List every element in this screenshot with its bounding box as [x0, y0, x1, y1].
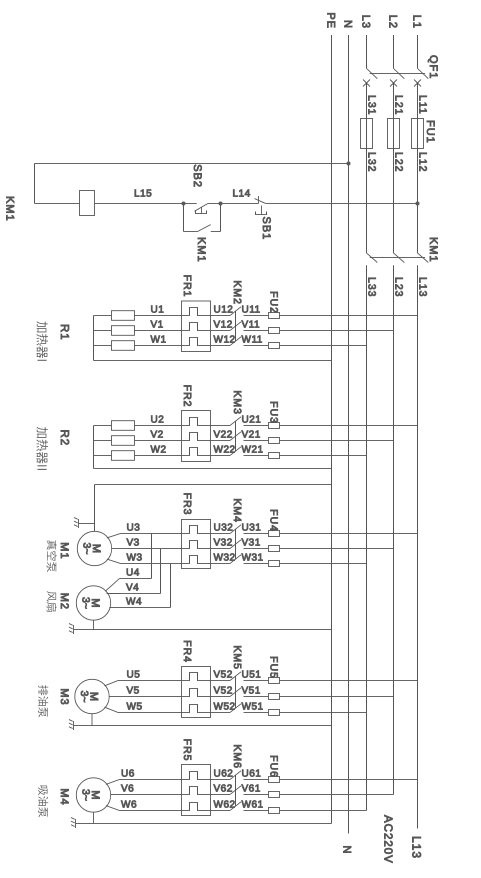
wire: M2 earth riser to PE [74, 629, 332, 631]
wire: fuse to contact 3 [244, 712, 269, 714]
wire U4: jog from M1 wire to M2 wire [151, 534, 153, 579]
wire: heater element 2 to common bar [94, 440, 112, 442]
wire L14: SB1 to node below [221, 203, 259, 205]
svg-text:3~: 3~ [81, 543, 93, 555]
svg-text:V2: V2 [151, 430, 164, 441]
thermal relay FR5 box [182, 765, 211, 816]
wire: contact 2 down to thermal relay [211, 696, 231, 698]
contactor KM3 contact 3 blade [230, 447, 241, 456]
svg-text:L32: L32 [366, 152, 378, 173]
bus wire L13 after KM1 [417, 265, 419, 828]
svg-text:U62: U62 [214, 769, 234, 780]
wire: phase 3 tap from bus down to fuse [280, 712, 367, 714]
wire: M4 frame stub [93, 812, 95, 823]
wire V2: thermal relay to heater [135, 440, 182, 442]
wire: fuse to contact 1 [244, 680, 269, 682]
wire: riser up to N bus [35, 163, 349, 165]
svg-text:U4: U4 [126, 568, 140, 579]
wire: fuse to contact 1 [244, 533, 269, 535]
fuse FU5 element 3 [269, 710, 280, 716]
wire W5: thermal relay down to motor M3 [118, 712, 182, 714]
svg-text:V52: V52 [214, 670, 233, 681]
fuse FU3 element 1 [269, 423, 280, 429]
wire: contact 3 down to thermal relay [211, 455, 231, 457]
fuse FU2 element 1 [269, 313, 280, 319]
svg-text:L13: L13 [417, 277, 429, 298]
contactor KM2 contact 2 blade [230, 322, 241, 331]
wire: M4 earth riser to PE [76, 823, 332, 825]
wire: phase 1 tap from bus down to fuse [280, 425, 418, 427]
wire: control rung from L1 down to SB1 [266, 203, 418, 205]
wire U1: thermal relay to heater [135, 315, 182, 317]
wire: fuse to contact 1 [244, 779, 269, 781]
wire: fuse to contact 2 [244, 440, 269, 442]
wire: contact 1 down to thermal relay [211, 779, 231, 781]
thermal relay FR4 element 2 [182, 689, 211, 697]
breaker QF1 pole L1 x-mark [414, 80, 421, 87]
neutral bus wire N [348, 35, 350, 834]
label oil-discharge pump (Chinese) [38, 685, 48, 695]
thermal relay FR1 box [182, 301, 211, 352]
svg-text:V31: V31 [242, 538, 261, 549]
svg-text:V5: V5 [127, 686, 140, 697]
wire: heater element 2 to common bar [94, 330, 112, 332]
contactor KM1 linkage [370, 257, 425, 259]
svg-text:L11: L11 [417, 95, 429, 115]
wire: M4 W lead diagonal [106, 806, 120, 811]
wire: M1 ground drop [79, 523, 95, 525]
svg-text:L2: L2 [387, 15, 399, 29]
svg-text:KM5: KM5 [231, 645, 243, 670]
svg-text:V6: V6 [121, 784, 134, 795]
svg-text:L23: L23 [393, 277, 405, 298]
svg-text:KM1: KM1 [427, 237, 439, 263]
wire: phase 1 tap from bus down to fuse [280, 533, 418, 535]
svg-text:W61: W61 [242, 800, 264, 811]
resistor R1 element 1 [112, 311, 135, 321]
wire W4: jog from M1 wire to M2 wire [170, 564, 172, 608]
node: control tap on L1 [416, 202, 420, 206]
fuse FU6 element 2 [269, 792, 280, 798]
svg-text:SB2: SB2 [191, 164, 203, 188]
wire: M3 frame stub [91, 714, 93, 726]
wire: fuse to contact 2 [244, 696, 269, 698]
thermal relay FR2 element 1 [182, 418, 211, 426]
fuse FU1 element L3 [361, 119, 373, 149]
breaker QF1 pole L3 blade [367, 68, 378, 78]
node: SB2/KM1-aux upper junction [219, 202, 223, 206]
thermal relay FR5 element 2 [182, 787, 211, 795]
svg-text:L3: L3 [360, 15, 372, 29]
svg-text:M3: M3 [58, 688, 70, 705]
breaker QF1 pole L2 blade [394, 68, 405, 78]
wire: R1 earth riser to PE [94, 360, 332, 362]
contactor KM2 linkage [235, 311, 237, 341]
wire V3: thermal relay down to motor M1 [112, 548, 182, 550]
breaker QF1 linkage [370, 73, 425, 75]
wire: M2 frame stub [93, 620, 95, 629]
svg-text:KM1: KM1 [195, 237, 207, 263]
contactor KM2 contact 3 blade [230, 337, 241, 346]
contactor KM4 contact 1 blade [230, 525, 241, 534]
motor M1 circle [77, 531, 111, 565]
label fan (Chinese) [47, 591, 57, 601]
svg-text:FR1: FR1 [181, 275, 193, 298]
svg-text:V3: V3 [127, 538, 140, 549]
wire: bottom run to N riser [34, 164, 36, 204]
svg-text:V21: V21 [242, 430, 261, 441]
contactor KM4 contact 2 blade [230, 540, 241, 549]
ground symbol at M3 [73, 721, 75, 730]
svg-text:V12: V12 [214, 320, 233, 331]
wire: fuse to contact 3 [244, 455, 269, 457]
svg-text:W3: W3 [127, 553, 143, 564]
svg-text:3~: 3~ [80, 789, 92, 801]
wire W3: thermal relay down to motor M1 [121, 563, 182, 565]
wire V4: jog from M1 wire to M2 wire [160, 549, 162, 594]
wire: phase 1 tap from bus down to fuse [280, 315, 418, 317]
pushbutton SB1 (NC) blade [255, 199, 266, 204]
thermal relay FR3 element 1 [182, 526, 211, 534]
svg-text:N: N [342, 20, 354, 29]
svg-text:L14: L14 [233, 189, 251, 200]
svg-text:U1: U1 [151, 305, 165, 316]
wire: phase 3 tap from bus down to fuse [280, 345, 367, 347]
wire: M3 U lead diagonal [104, 681, 118, 686]
wire: M4 U lead diagonal [106, 780, 120, 785]
fuse FU2 element 3 [269, 343, 280, 349]
thermal relay FR2 element 2 [182, 433, 211, 441]
fuse FU5 element 1 [269, 678, 280, 684]
thermal relay FR3 element 2 [182, 541, 211, 549]
pushbutton SB2 actuator stem [201, 207, 203, 214]
fuse FU1 element L2 [388, 119, 400, 149]
svg-text:W5: W5 [127, 702, 143, 713]
svg-text:M2: M2 [58, 593, 70, 610]
wire V1: thermal relay to heater [135, 330, 182, 332]
resistor R2 element 1 [112, 421, 135, 431]
wire: heater element 3 to common bar [94, 345, 112, 347]
contactor KM1 main contact L1 blade [418, 253, 429, 263]
bus wire L23 after KM1 [393, 265, 395, 794]
svg-text:V4: V4 [126, 583, 139, 594]
svg-text:U5: U5 [127, 670, 141, 681]
wire: contact 2 down to thermal relay [211, 794, 231, 796]
contactor KM1 main contact L2 blade [394, 253, 405, 263]
wire: phase 3 tap from bus down to fuse [280, 563, 367, 565]
svg-text:FR4: FR4 [181, 640, 193, 663]
svg-text:QF1: QF1 [427, 55, 439, 79]
resistor R1 element 3 [112, 341, 135, 351]
svg-text:W6: W6 [121, 800, 137, 811]
contactor KM5 contact 2 blade [230, 688, 241, 697]
svg-text:W11: W11 [242, 335, 263, 346]
pushbutton SB1 actuator stem [261, 206, 263, 215]
svg-text:N: N [341, 846, 353, 855]
svg-text:V61: V61 [242, 784, 261, 795]
wire: M2 V lead entry [107, 593, 120, 595]
thermal relay FR5 element 1 [182, 772, 211, 780]
svg-text:M1: M1 [58, 542, 70, 559]
pushbutton SB2 actuator cap [196, 211, 207, 214]
pushbutton SB2 (NO) blade [195, 204, 208, 212]
svg-text:FU3: FU3 [268, 401, 280, 424]
svg-text:L13: L13 [410, 836, 424, 859]
wire: contact 3 down to thermal relay [211, 810, 231, 812]
svg-text:R2: R2 [58, 430, 70, 447]
wire: contact 2 down to thermal relay [211, 330, 231, 332]
wire: phase 1 tap from bus down to fuse [280, 680, 418, 682]
pushbutton SB1 seat tick [258, 196, 260, 204]
svg-text:W32: W32 [214, 553, 236, 564]
fuse FU4 element 3 [269, 561, 280, 567]
contactor KM1 main contact L3 blade [367, 253, 378, 263]
wire W4: down to motor M2 [120, 607, 171, 609]
svg-text:W12: W12 [214, 335, 236, 346]
contactor KM6 contact 1 blade [230, 771, 241, 780]
wire: M1 U lead diagonal [107, 534, 121, 538]
contactor KM6 linkage [235, 775, 237, 806]
svg-text:W31: W31 [242, 553, 264, 564]
svg-text:SB1: SB1 [260, 217, 272, 241]
wire U5: thermal relay down to motor M3 [118, 680, 182, 682]
thermal relay FR2 box [182, 411, 211, 462]
wire: R2 earth riser to PE [94, 468, 332, 470]
wire: M2 U lead diagonal [105, 579, 119, 592]
bus wire L33 after KM1 [366, 265, 368, 810]
svg-text:KM2: KM2 [231, 280, 243, 305]
wire: heater element 1 to common bar [94, 425, 112, 427]
contactor KM2 contact 1 blade [230, 307, 241, 316]
wire U6: thermal relay down to motor M4 [120, 779, 182, 781]
thermal relay FR4 box [182, 667, 211, 718]
wire: phase 1 tap from bus down to fuse [280, 779, 418, 781]
resistor R2 element 2 [112, 436, 135, 446]
svg-text:U11: U11 [242, 305, 261, 316]
bus wire L1 segment before QF1 [417, 35, 419, 68]
label heater I (Chinese) [37, 321, 48, 332]
wire: node to SB2 [208, 203, 221, 205]
wire: contact 1 down to thermal relay [211, 315, 231, 317]
svg-text:V1: V1 [151, 320, 164, 331]
fuse FU4 element 2 [269, 546, 280, 552]
svg-text:W22: W22 [214, 445, 236, 456]
thermal relay FR1 element 1 [182, 308, 211, 316]
wire L15: node down to coil [95, 203, 184, 205]
svg-text:U2: U2 [151, 415, 165, 426]
svg-text:U32: U32 [214, 523, 234, 534]
svg-text:3~: 3~ [78, 691, 90, 703]
wire: M1 W lead diagonal [107, 559, 121, 563]
svg-text:W62: W62 [214, 800, 236, 811]
thermal relay FR1 element 3 [182, 338, 211, 346]
svg-text:R1: R1 [58, 324, 70, 341]
wire: fuse to contact 3 [244, 563, 269, 565]
wire: contact 2 down to thermal relay [211, 548, 231, 550]
motor M4 circle [76, 778, 110, 812]
svg-text:V22: V22 [214, 430, 233, 441]
svg-text:FU6: FU6 [268, 755, 280, 778]
breaker QF1 pole L3 x-mark [363, 80, 370, 87]
breaker QF1 pole L2 x-mark [390, 80, 397, 87]
thermal relay FR3 element 3 [182, 556, 211, 564]
wire: contact 3 down to thermal relay [211, 345, 231, 347]
svg-text:W2: W2 [151, 445, 167, 456]
svg-text:M4: M4 [58, 788, 70, 805]
ground symbol at M2 [73, 625, 75, 634]
wire U3: thermal relay down to motor M1 [121, 533, 182, 535]
bus wire L1 segment L11-L12 through FU1 [417, 83, 419, 253]
thermal relay FR4 element 3 [182, 705, 211, 713]
fuse FU3 element 3 [269, 453, 280, 459]
wire: contact 2 down to thermal relay [211, 440, 231, 442]
svg-text:FR2: FR2 [181, 385, 193, 408]
motor M3 circle [75, 679, 109, 713]
wire: fuse to contact 1 [244, 425, 269, 427]
svg-text:W4: W4 [126, 597, 142, 608]
svg-text:U12: U12 [214, 305, 234, 316]
thermal relay FR4 element 1 [182, 673, 211, 681]
svg-text:3~: 3~ [80, 597, 92, 609]
wire: KM1 aux branch right lower [184, 231, 198, 233]
bus wire L2 segment before QF1 [393, 35, 395, 68]
svg-text:FU1: FU1 [424, 120, 436, 144]
wire: contact 3 down to thermal relay [211, 563, 231, 565]
wire: phase 2 tap from bus down to fuse [280, 440, 394, 442]
wire V4: down to motor M2 [107, 593, 161, 595]
contactor KM1 auxiliary contact blade [198, 225, 211, 232]
svg-text:W1: W1 [151, 335, 167, 346]
contactor KM6 contact 2 blade [230, 786, 241, 795]
wire: KM1 aux branch right upper [211, 231, 221, 233]
svg-text:KM1: KM1 [4, 196, 16, 222]
fuse FU4 element 1 [269, 531, 280, 537]
thermal relay FR1 element 2 [182, 323, 211, 331]
svg-text:V11: V11 [242, 320, 261, 331]
svg-text:KM4: KM4 [231, 498, 243, 523]
label vacuum pump (Chinese) [47, 540, 57, 550]
svg-text:U31: U31 [242, 523, 262, 534]
ground symbol at M1 [78, 519, 80, 528]
wire: fuse to contact 3 [244, 810, 269, 812]
svg-text:FR5: FR5 [181, 739, 193, 762]
svg-text:W51: W51 [242, 702, 264, 713]
wire: SB2 to lower node [184, 203, 197, 205]
breaker QF1 pole L1 blade [418, 68, 429, 78]
contactor KM3 linkage [235, 421, 237, 451]
wire: M3 W lead diagonal [104, 707, 118, 712]
svg-text:U6: U6 [121, 769, 135, 780]
wire: fuse to contact 2 [244, 794, 269, 796]
bus wire L3 segment L31-L32 through FU1 [366, 83, 368, 253]
svg-text:V51: V51 [242, 686, 261, 697]
svg-text:L31: L31 [366, 95, 378, 116]
svg-text:V52: V52 [214, 686, 233, 697]
wire: R1 common bar [93, 316, 95, 361]
fuse FU5 element 2 [269, 694, 280, 700]
svg-text:V62: V62 [214, 784, 233, 795]
label heater II (Chinese) [37, 427, 48, 438]
contactor KM6 contact 3 blade [230, 802, 241, 811]
earth bus wire PE [331, 35, 333, 824]
svg-text:L21: L21 [393, 95, 405, 116]
svg-text:U51: U51 [242, 670, 262, 681]
svg-text:PE: PE [325, 12, 337, 29]
svg-text:KM6: KM6 [231, 744, 243, 769]
wire: M2 W lead entry [109, 607, 119, 609]
wire W2: thermal relay to heater [135, 455, 182, 457]
svg-text:L33: L33 [366, 277, 378, 298]
pushbutton SB1 actuator cap [256, 212, 267, 215]
ground symbol at M4 [75, 819, 77, 828]
resistor R1 element 2 [112, 326, 135, 336]
thermal relay FR3 box [182, 520, 211, 569]
contactor KM4 linkage [235, 529, 237, 559]
label oil-suction pump (Chinese) [38, 786, 47, 796]
wire: fuse to contact 2 [244, 548, 269, 550]
svg-text:FU4: FU4 [268, 509, 280, 532]
bus wire L2 segment L21-L22 through FU1 [393, 83, 395, 253]
motor M2 circle [76, 586, 110, 620]
wire: heater element 3 to common bar [94, 455, 112, 457]
fuse FU1 element L1 [412, 119, 424, 149]
contactor KM4 contact 3 blade [230, 555, 241, 564]
contactor KM5 contact 3 blade [230, 704, 241, 713]
wire V6: thermal relay down to motor M4 [111, 794, 182, 796]
wire: fuse to contact 1 [244, 315, 269, 317]
wire: contact 3 down to thermal relay [211, 712, 231, 714]
wire: coil to bottom corner [35, 203, 80, 205]
contactor KM3 contact 1 blade [230, 417, 241, 426]
wire: phase 2 tap from bus down to fuse [280, 696, 394, 698]
wire U2: thermal relay to heater [135, 425, 182, 427]
wire: phase 2 tap from bus down to fuse [280, 794, 394, 796]
wire: KM1 aux branch top [220, 204, 222, 232]
wire W6: thermal relay down to motor M4 [120, 810, 182, 812]
wire: M1 frame wire to PE riser [94, 485, 96, 532]
thermal relay FR5 element 3 [182, 803, 211, 811]
fuse FU3 element 2 [269, 438, 280, 444]
resistor R2 element 3 [112, 451, 135, 461]
wire U4: down to motor M2 [120, 578, 152, 580]
wire: fuse to contact 3 [244, 345, 269, 347]
svg-text:L22: L22 [393, 152, 405, 173]
svg-text:V32: V32 [214, 538, 233, 549]
wire: phase 3 tap from bus down to fuse [280, 810, 367, 812]
svg-text:FU2: FU2 [268, 291, 280, 314]
coil KM1 [80, 191, 95, 216]
svg-text:U21: U21 [242, 415, 262, 426]
svg-text:W21: W21 [242, 445, 264, 456]
bus wire L3 segment before QF1 [366, 35, 368, 68]
wire: fuse to contact 2 [244, 330, 269, 332]
fuse FU6 element 3 [269, 808, 280, 814]
wire V5: thermal relay down to motor M3 [109, 696, 181, 698]
svg-text:AC220V: AC220V [382, 815, 394, 864]
svg-text:W52: W52 [214, 702, 236, 713]
svg-text:KM3: KM3 [231, 390, 243, 415]
node: control tap on N [347, 162, 351, 166]
wire: phase 2 tap from bus down to fuse [280, 548, 394, 550]
wire: phase 3 tap from bus down to fuse [280, 455, 367, 457]
svg-text:L12: L12 [417, 152, 429, 173]
svg-text:L1: L1 [411, 15, 423, 29]
wire: contact 1 down to thermal relay [211, 425, 231, 427]
wire: M1 earth riser to PE [95, 484, 332, 486]
contactor KM5 contact 1 blade [230, 672, 241, 681]
contactor KM5 linkage [235, 676, 237, 708]
wire: contact 1 down to thermal relay [211, 533, 231, 535]
